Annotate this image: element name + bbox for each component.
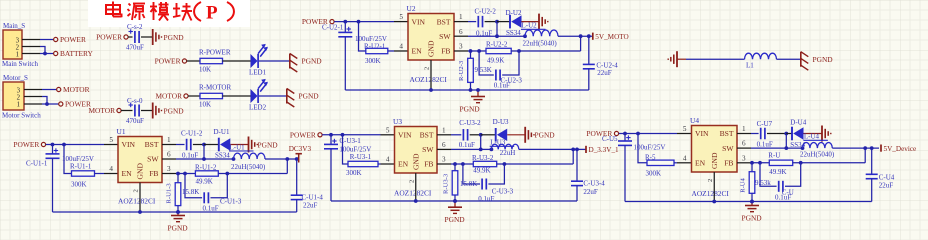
resistor R-U: [769, 160, 792, 165]
connector Motor_S body: [3, 82, 24, 110]
junction output cap (U2): [587, 34, 591, 38]
svg-text:2: 2: [133, 189, 140, 192]
power flag MOTOR (LED2): [184, 94, 188, 98]
wire rail to PGND (U3): [454, 201, 456, 207]
wire RC right drop (U1): [211, 174, 228, 198]
svg-text:1: 1: [459, 13, 463, 21]
svg-text:R-U4: R-U4: [740, 177, 747, 192]
junction RC right (U2): [517, 49, 521, 53]
wire diode anode to PGND (U2): [522, 21, 540, 23]
title 块: [176, 3, 178, 17]
svg-text:470uF: 470uF: [126, 117, 144, 125]
junction FB-RC (U4): [758, 161, 762, 165]
wire inductor to output (U3): [519, 148, 586, 150]
capacitor C-U3-1: [324, 143, 338, 145]
junction EN divider (U3): [341, 133, 345, 137]
power ground PGND (LED2): [286, 89, 288, 104]
junction EN divider (U2): [357, 20, 361, 24]
svg-text:AOZ1282CI: AOZ1282CI: [410, 75, 448, 84]
junction RC right (U3): [503, 162, 507, 166]
wire POWER to VIN (U2): [334, 21, 394, 23]
wire C-U4 to rail: [871, 179, 873, 202]
svg-text:PGND: PGND: [742, 214, 763, 223]
svg-text:C-U1-1: C-U1-1: [26, 160, 48, 168]
wire BST to C-U1-2: [176, 144, 185, 146]
svg-text:LED1: LED1: [249, 68, 267, 76]
svg-text:2: 2: [17, 94, 21, 101]
svg-text:6: 6: [167, 151, 171, 159]
junction SW drop (U2): [495, 34, 499, 38]
wire to diode D-U2: [497, 21, 510, 23]
wire diode anode to PGND (U1): [230, 144, 248, 146]
ground rail (U4): [625, 201, 872, 203]
wire inductor to output (U2): [558, 35, 593, 37]
junction BST drop (U4): [784, 132, 788, 136]
svg-text:R-U2-2: R-U2-2: [486, 40, 508, 48]
power ground PGND (diode D-U1): [248, 137, 250, 153]
resistor R-U2-2: [486, 48, 511, 53]
wire BST drop to SW (U3): [480, 135, 482, 150]
svg-text:POWER: POWER: [96, 33, 122, 42]
svg-text:C-U2-1: C-U2-1: [322, 24, 344, 32]
wire EN pin stub (U1): [104, 173, 118, 175]
svg-text:U1: U1: [117, 127, 126, 136]
svg-text:6: 6: [459, 28, 463, 36]
ground rail (U3): [331, 200, 577, 202]
wire BST pin stub (U2): [454, 21, 468, 23]
junction inductor (U3): [490, 148, 494, 152]
wire RC right drop (U2): [502, 51, 519, 75]
wire Main_S pin2 stub: [22, 46, 40, 48]
wire to diode D-U1: [204, 144, 219, 146]
wire BST pin stub (U4): [737, 133, 751, 135]
junction FB-Rdown (U2): [469, 49, 473, 53]
svg-text:C-U1-4: C-U1-4: [302, 194, 324, 202]
wire feedback (U3): [497, 163, 574, 165]
wire Motor_S pin2 stub: [24, 96, 42, 98]
wire feedback riser (U2): [580, 36, 582, 51]
resistor R-U4: [749, 172, 755, 194]
power ground PGND (under U1): [171, 215, 185, 217]
svg-text:FB: FB: [424, 160, 433, 169]
junction EN divider (U1): [62, 143, 66, 147]
svg-text:FB: FB: [441, 47, 450, 56]
wire C-U3-2 to SW drop: [470, 134, 481, 136]
svg-text:2: 2: [408, 180, 415, 183]
wire BST to C-U3-2: [451, 134, 461, 136]
wire BST drop to SW (U1): [203, 145, 205, 160]
svg-text:300K: 300K: [365, 57, 381, 65]
svg-text:VIN: VIN: [695, 129, 709, 138]
wire feedback riser (U4): [864, 148, 866, 163]
svg-text:PGND: PGND: [535, 130, 556, 139]
wire ground to L1: [677, 58, 686, 60]
svg-text:C-s-0: C-s-0: [127, 97, 143, 105]
svg-text:5: 5: [386, 126, 390, 134]
svg-text:6: 6: [442, 141, 446, 149]
junction PGND (U1): [176, 210, 180, 214]
wire C-U2-1 to ground rail: [344, 37, 346, 90]
power ground PGND (under U4): [745, 205, 759, 207]
wire into capacitor C-U1-1: [52, 145, 54, 154]
power port 5V_Device: [880, 145, 882, 152]
svg-text:AOZ1282CI: AOZ1282CI: [118, 197, 156, 206]
junction GND-rail (U3): [414, 199, 418, 203]
terminal MOTOR (Motor_S): [57, 87, 61, 91]
wire feedback riser (U1): [286, 159, 288, 174]
wire R-U3-3 to rail: [454, 195, 456, 201]
power flag MOTOR (C-s-0): [117, 108, 121, 112]
wire FB to R-U1-3: [177, 174, 179, 183]
wire to diode D-U3: [481, 134, 496, 136]
svg-text:1: 1: [742, 125, 746, 133]
svg-text:BST: BST: [720, 129, 734, 138]
wire MOTOR to C-s-0: [121, 110, 133, 112]
junction R-U4-rail: [750, 200, 754, 204]
svg-text:3: 3: [742, 154, 746, 162]
title 模: [153, 2, 155, 20]
wire R-U2-3 to rail: [470, 82, 472, 90]
junction SW drop (U3): [479, 148, 483, 152]
capacitor C-U1-3: [203, 192, 205, 203]
regulator U3 body: [395, 127, 438, 174]
wire C-U2-2 to SW drop: [485, 21, 497, 23]
junction output cap (U1): [295, 157, 299, 161]
svg-text:POWER: POWER: [60, 35, 86, 44]
wire C-U1-2 to SW drop: [193, 144, 204, 146]
junction R-U1-3-rail: [176, 210, 180, 214]
svg-text:PGND: PGND: [302, 57, 323, 66]
svg-text:0.1uF: 0.1uF: [203, 204, 219, 212]
junction GND-rail (U1): [138, 210, 142, 214]
junction FB-Rdown (U4): [750, 161, 754, 165]
power ground (diode D-U2): [538, 14, 540, 30]
svg-text:Motor_S: Motor_S: [3, 74, 28, 82]
svg-text:R-U2-3: R-U2-3: [458, 60, 465, 81]
wire diode anode to PGND (U4): [804, 133, 823, 135]
wire Motor_S pin3 stub: [24, 89, 42, 91]
wire SW to inductor (U4): [751, 147, 803, 149]
wire MOTOR to R-MOTOR: [188, 95, 200, 97]
svg-text:9.53K: 9.53K: [475, 66, 492, 74]
svg-text:LED2: LED2: [249, 103, 267, 111]
svg-text:PGND: PGND: [168, 224, 189, 233]
wire C-s-0 to PGND: [141, 110, 152, 112]
svg-text:MOTOR: MOTOR: [155, 92, 182, 101]
wire L1 to PGND: [777, 58, 801, 60]
svg-text:L-U2: L-U2: [522, 22, 538, 30]
svg-text:D_3.3V_1: D_3.3V_1: [589, 146, 620, 154]
svg-text:5: 5: [683, 125, 687, 133]
wire C-U3-4 to rail: [576, 186, 578, 201]
svg-text:22uH(5040): 22uH(5040): [523, 40, 558, 48]
junction inductor (U1): [232, 157, 236, 161]
power ground PGND (C-s-2): [152, 29, 154, 45]
junction PGND (U4): [750, 200, 754, 204]
wire divider down (U2): [359, 22, 366, 51]
wire VIN pin stub (U1): [104, 144, 118, 146]
svg-text:L1: L1: [746, 62, 754, 70]
svg-text:5V_MOTO: 5V_MOTO: [595, 33, 628, 41]
svg-text:D-U2: D-U2: [506, 9, 522, 17]
svg-text:R-MOTOR: R-MOTOR: [199, 84, 231, 92]
capacitor C-U2-4: [583, 63, 595, 65]
power port 5V_MOTO: [592, 33, 594, 40]
svg-text:10K: 10K: [199, 65, 211, 73]
resistor R-U3-3: [452, 171, 458, 195]
wire R-U3-1 to EN: [378, 163, 381, 165]
svg-text:0.1uF: 0.1uF: [775, 194, 791, 202]
svg-text:VIN: VIN: [122, 140, 136, 149]
wire feedback (U2): [511, 50, 580, 52]
wire divider down (U1): [64, 145, 72, 174]
title 电: [112, 2, 114, 17]
wire FB to R-U4: [751, 163, 753, 172]
svg-text:PGND: PGND: [299, 92, 320, 101]
power ground PGND (under U3): [448, 206, 462, 208]
inductor L-U4: [803, 143, 833, 149]
capacitor C-U2-1: [338, 31, 352, 33]
capacitor C-U2-3: [495, 70, 497, 81]
svg-text:0.1uF: 0.1uF: [459, 141, 475, 149]
junction BST drop (U3): [479, 133, 483, 137]
svg-text:R-U1-2: R-U1-2: [195, 163, 217, 171]
wire POWER to VIN (U3): [322, 134, 380, 136]
junction feedback tap (U2): [579, 34, 583, 38]
capacitor C-s-2: [134, 31, 136, 43]
junction RC right (U1): [225, 172, 229, 176]
svg-text:2: 2: [707, 179, 714, 182]
wire RC right drop (U4): [785, 163, 801, 187]
svg-text:49.9K: 49.9K: [769, 168, 786, 176]
ground rail (U2): [345, 89, 589, 91]
ground rail (U1): [53, 211, 297, 213]
svg-text:PGND: PGND: [164, 33, 185, 42]
svg-text:R-U3-1: R-U3-1: [350, 153, 372, 161]
wire Motor_S pin1 to POWER: [42, 103, 59, 105]
junction FB-RC (U1): [183, 172, 187, 176]
terminal POWER (Main_S): [54, 37, 58, 41]
wire FB to R-U3-3: [454, 164, 456, 171]
power ground PGND (under U2): [471, 96, 485, 98]
svg-text:22uF: 22uF: [597, 69, 612, 77]
svg-text:MOTOR: MOTOR: [88, 106, 115, 115]
resistor R-POWER: [200, 58, 223, 63]
junction feedback tap (U3): [571, 148, 575, 152]
regulator U1 body: [118, 137, 162, 183]
title 源: [129, 4, 131, 6]
LED LED1: [251, 54, 258, 68]
power flag POWER (U2): [330, 20, 334, 24]
junction PGND (U2): [476, 88, 480, 92]
svg-text:SW: SW: [439, 32, 451, 41]
wire VIN pin stub (U3): [381, 134, 395, 136]
svg-text:PGND: PGND: [258, 141, 279, 150]
junction FB-RC (U3): [461, 162, 465, 166]
wire POWER to R-POWER: [187, 60, 200, 62]
svg-text:L-U1: L-U1: [230, 143, 246, 151]
wire Motor_S pin3 to MOTOR: [42, 89, 57, 91]
junction input cap (U2): [343, 20, 347, 24]
inductor L1: [745, 53, 777, 59]
wire C-U2-4 to rail: [588, 69, 590, 90]
svg-text:L-U4: L-U4: [804, 133, 820, 141]
svg-text:GND: GND: [136, 163, 145, 180]
wire R-U1-3 to rail: [177, 206, 179, 212]
wire C-U5 to ground rail: [624, 145, 626, 201]
svg-text:C-U3-3: C-U3-3: [492, 187, 514, 195]
svg-text:FB: FB: [149, 169, 158, 178]
junction input cap (U1): [51, 143, 55, 147]
wire rail to PGND (U2): [477, 90, 479, 97]
svg-text:2: 2: [424, 67, 431, 70]
wire RC left drop (U4): [760, 163, 777, 187]
svg-text:U2: U2: [407, 4, 416, 13]
wire SW to inductor (U1): [176, 158, 234, 160]
wire RC left drop (U2): [479, 51, 494, 75]
svg-text:4: 4: [399, 43, 403, 51]
power ground (L1 left): [676, 51, 678, 67]
junction BST drop (U1): [202, 143, 206, 147]
svg-text:C-U5: C-U5: [602, 135, 618, 143]
junction PGND (U3): [453, 199, 457, 203]
junction inductor (U2): [523, 34, 527, 38]
svg-text:R-U1-3: R-U1-3: [166, 183, 173, 204]
wire BST to C-U7: [751, 133, 759, 135]
wire R-U2-1 to EN: [388, 50, 394, 52]
svg-text:GND: GND: [427, 40, 436, 57]
wire R-MOTOR to LED2: [223, 95, 251, 97]
wire inductor to output (U1): [265, 158, 299, 160]
svg-text:R-U: R-U: [768, 152, 780, 160]
capacitor C-U4: [866, 173, 878, 175]
wire feedback riser (U3): [572, 149, 574, 164]
wire feedback (U4): [793, 162, 866, 164]
svg-text:300K: 300K: [346, 169, 362, 177]
wire C-U1-4 to rail: [296, 200, 298, 212]
svg-text:EN: EN: [695, 159, 706, 168]
power port DC3V3: [298, 154, 300, 163]
resistor R-U1-1: [72, 171, 95, 176]
svg-text:4: 4: [386, 156, 390, 164]
svg-text:3: 3: [442, 156, 446, 164]
svg-text:PGND: PGND: [460, 105, 481, 114]
title （P）: [194, 2, 201, 21]
svg-text:AOZ1282CI: AOZ1282CI: [692, 189, 730, 198]
power ground PGND (LED1): [289, 54, 291, 69]
svg-text:5: 5: [109, 136, 113, 144]
svg-text:Motor Switch: Motor Switch: [2, 112, 41, 120]
wire R-5 to EN: [674, 162, 677, 164]
terminal POWER (Motor_S): [59, 102, 63, 106]
svg-text:0.1uF: 0.1uF: [182, 152, 198, 160]
terminal BATTERY (Main_S): [54, 51, 58, 55]
svg-text:1: 1: [167, 136, 171, 144]
svg-text:R-U1-1: R-U1-1: [70, 163, 92, 171]
svg-text:C-U3-2: C-U3-2: [459, 119, 481, 127]
svg-text:D-U4: D-U4: [790, 119, 806, 127]
svg-text:470uF: 470uF: [126, 44, 144, 52]
svg-text:300K: 300K: [646, 170, 662, 178]
power flag POWER (U3): [318, 133, 322, 137]
resistor R-U1-2: [195, 171, 218, 176]
resistor R-U3-2: [473, 161, 496, 166]
svg-text:EN: EN: [412, 47, 423, 56]
svg-text:5V_Device: 5V_Device: [884, 145, 917, 153]
wire POWER to VIN (U1): [46, 144, 104, 146]
svg-text:300K: 300K: [71, 181, 87, 189]
svg-text:22uF: 22uF: [303, 202, 318, 210]
svg-text:6: 6: [742, 140, 746, 148]
svg-text:POWER: POWER: [65, 100, 91, 109]
wire C-U3-1 to ground rail: [330, 149, 332, 201]
junction Main_S pins 1-2: [43, 52, 47, 56]
svg-text:Main Switch: Main Switch: [2, 60, 38, 68]
LED LED2: [251, 89, 258, 103]
capacitor C-s-0: [134, 105, 136, 117]
resistor R-U2-1: [366, 48, 388, 53]
wire SW to inductor (U2): [468, 35, 525, 37]
resistor R-U3-1: [348, 161, 378, 166]
svg-text:4: 4: [683, 154, 687, 162]
wire GND pin to rail (U3): [415, 173, 417, 201]
svg-text:2: 2: [16, 44, 20, 51]
junction Motor_S pins 1-2: [45, 102, 49, 106]
diode D-U4: [791, 127, 793, 141]
svg-text:10K: 10K: [199, 100, 211, 108]
capacitor C-U1-2: [186, 139, 188, 151]
svg-text:EN: EN: [122, 169, 133, 178]
wire BST to C-U2-2: [468, 21, 476, 23]
wire divider down (U3): [343, 135, 349, 164]
wire rail to PGND (U4): [751, 202, 753, 206]
wire FB pin stub (U1): [162, 173, 176, 175]
capacitor C-U5: [618, 140, 632, 142]
wire EN pin stub (U2): [394, 50, 408, 52]
svg-text:U3: U3: [393, 117, 402, 126]
power flag POWER (LED1): [182, 59, 186, 63]
wire output cap drop (U3): [576, 149, 578, 181]
junction GND-rail (U4): [712, 200, 716, 204]
junction output cap (U4): [870, 146, 874, 150]
svg-text:EN: EN: [398, 160, 409, 169]
wire LED1 to PGND: [259, 60, 290, 62]
svg-text:BST: BST: [145, 140, 159, 149]
inductor L-U2: [525, 30, 558, 36]
capacitor C-U3-2: [462, 129, 464, 141]
diode D-U1: [218, 138, 220, 152]
svg-text:POWER: POWER: [290, 130, 316, 139]
wire Main_S pin3 stub: [22, 39, 40, 41]
svg-text:GND: GND: [710, 152, 719, 169]
wire feedback (U1): [218, 173, 287, 175]
svg-text:D-U1: D-U1: [214, 128, 230, 136]
regulator U2 body: [408, 14, 454, 61]
capacitor C-U: [778, 181, 780, 192]
diode D-U2: [509, 15, 511, 29]
junction inductor (U4): [801, 146, 805, 150]
svg-text:VIN: VIN: [398, 131, 412, 140]
junction FB-Rdown (U1): [176, 172, 180, 176]
wire RC right drop (U3): [488, 164, 504, 184]
wire VIN pin stub (U2): [394, 21, 408, 23]
svg-text:FB: FB: [724, 159, 733, 168]
wire Motor_S pin2 jog: [42, 97, 47, 105]
svg-text:C-U2-2: C-U2-2: [475, 7, 497, 15]
junction feedback tap (U4): [863, 146, 867, 150]
wire VIN pin stub (U4): [677, 133, 692, 135]
wire FB to R-U2-3: [470, 51, 472, 58]
